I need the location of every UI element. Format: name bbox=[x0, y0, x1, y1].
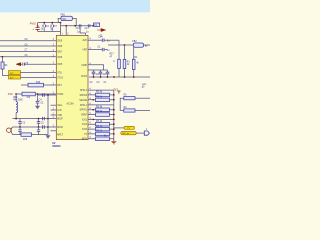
svg-text:IO09: IO09 bbox=[57, 41, 63, 43]
inductor VR1 coil bbox=[16, 102, 17, 113]
svg-text:ACOM: ACOM bbox=[67, 103, 74, 106]
wire R13 bottom bbox=[133, 70, 135, 78]
wire pin 100 bbox=[88, 99, 114, 101]
capacitor C16 bbox=[102, 48, 104, 51]
wire right pin C16 row bbox=[88, 49, 102, 51]
svg-text:SPKL2: SPKL2 bbox=[80, 90, 88, 92]
wire ground return rail bbox=[38, 30, 61, 32]
svg-text:MICN: MICN bbox=[57, 127, 63, 129]
wire R11 top bbox=[118, 40, 120, 59]
top blue banner bbox=[0, 0, 150, 12]
wire C25 leads bbox=[38, 127, 40, 135]
node on PVIO rail 2 bbox=[51, 22, 53, 24]
capacitor C26 bbox=[92, 72, 96, 74]
wire to coil bbox=[15, 94, 17, 102]
svg-text:R16: R16 bbox=[36, 82, 41, 84]
node rail x107.5 bbox=[107, 76, 109, 78]
wire pin 114.5 bbox=[88, 114, 114, 116]
net label TX pill bbox=[124, 126, 135, 129]
resistor R16 bbox=[28, 83, 44, 87]
node bus 100 bbox=[113, 99, 115, 101]
C14 lead bbox=[104, 39, 119, 41]
wire FB1 right lead bbox=[72, 18, 76, 25]
wire left row 2 bbox=[0, 45, 56, 47]
resistor R17 bbox=[1, 62, 4, 69]
wire R13 top bbox=[133, 47, 135, 59]
capacitor C27 bbox=[99, 72, 103, 74]
mic electrode bar bbox=[10, 128, 12, 133]
node bus 129 bbox=[113, 128, 115, 130]
svg-text:SPKR1: SPKR1 bbox=[79, 110, 87, 112]
wire C11 to pin3 bbox=[80, 27, 85, 35]
stub left pin 105 bbox=[51, 104, 57, 106]
net label MIC_data pill bbox=[121, 131, 136, 134]
svg-text:C17: C17 bbox=[85, 28, 90, 30]
ferrite bead FB2 bbox=[133, 43, 143, 47]
svg-text:FB2: FB2 bbox=[132, 41, 137, 43]
resistor R32 bbox=[96, 98, 110, 102]
svg-text:SSD63: SSD63 bbox=[52, 144, 61, 148]
node rail2 b bbox=[38, 126, 40, 128]
wire IC pin2 stub bbox=[65, 26, 67, 36]
svg-text:MPLT: MPLT bbox=[57, 135, 64, 137]
node rail x132.5 bbox=[133, 76, 135, 78]
wire pin 105 bbox=[88, 104, 114, 106]
wire pin 124.2 bbox=[88, 123, 114, 125]
resistor R35 bbox=[96, 123, 110, 127]
wire mic rail 1 bbox=[13, 118, 49, 120]
resistor R34 bbox=[96, 113, 110, 117]
svg-text:IO03: IO03 bbox=[82, 129, 88, 131]
svg-text:IO07: IO07 bbox=[57, 51, 63, 53]
resistor R12 bbox=[123, 59, 126, 68]
svg-text:R19: R19 bbox=[23, 139, 28, 141]
wire R21 right bbox=[135, 97, 150, 99]
wire right pin C14 row bbox=[88, 39, 102, 41]
ferrite bead FB1 bbox=[61, 16, 72, 20]
svg-text:R1?: R1? bbox=[110, 54, 115, 56]
svg-text:IO02: IO02 bbox=[82, 124, 88, 126]
svg-text:VDD: VDD bbox=[57, 115, 62, 117]
resistor R36 bbox=[96, 127, 110, 130]
node bus 134 bbox=[113, 133, 115, 135]
wire pin 110 bbox=[88, 109, 114, 111]
capacitor C13 bbox=[51, 25, 53, 28]
svg-text:R3 4k: R3 4k bbox=[96, 126, 103, 128]
stub left pin 115 bbox=[51, 114, 57, 116]
svg-text:IO08: IO08 bbox=[57, 46, 63, 48]
ground below C20 bbox=[35, 106, 40, 109]
wire R12 top bbox=[124, 45, 126, 59]
ground bus bottom bbox=[45, 135, 50, 139]
resistor R22 bbox=[124, 109, 135, 112]
resistor R21 bbox=[124, 97, 135, 100]
C4 bars bbox=[43, 93, 45, 96]
resistor R11 bbox=[118, 59, 121, 68]
IC U2 body bbox=[56, 35, 88, 139]
svg-text:MIC_da: MIC_da bbox=[122, 133, 130, 135]
svg-text:IO06: IO06 bbox=[57, 57, 63, 59]
wire row 5 bbox=[24, 63, 56, 65]
3V3 symbol bbox=[117, 91, 120, 94]
wire R17 bottom bbox=[2, 69, 8, 75]
sheet entry right bbox=[144, 131, 149, 135]
wire pin 90 bbox=[88, 89, 114, 91]
stub left pin 130 bbox=[51, 130, 57, 132]
wire cap tops bbox=[88, 69, 108, 71]
node on PVIO rail bbox=[43, 22, 45, 24]
node rail x100.5 bbox=[100, 76, 102, 78]
resistor R38 bbox=[96, 137, 110, 141]
node bus 124 bbox=[113, 123, 115, 125]
node bus 119 bbox=[113, 119, 115, 121]
capacitor C22 bbox=[18, 122, 21, 124]
svg-text:PVAD: PVAD bbox=[57, 93, 63, 96]
node pin row a bbox=[92, 99, 94, 101]
wire rail2 to IC bbox=[48, 126, 56, 128]
capacitor C10 polarized bbox=[35, 23, 39, 32]
wire mic rail 2 bbox=[13, 126, 49, 128]
node rail transition bbox=[60, 22, 62, 24]
wire MIC_data right bbox=[136, 132, 144, 134]
wire TX left bbox=[114, 127, 124, 129]
capacitor C20 bbox=[36, 101, 40, 103]
wire C24 leads bbox=[19, 127, 21, 135]
wire left row 1 bbox=[0, 40, 56, 42]
svg-text:IO01: IO01 bbox=[82, 119, 88, 121]
wire PVIO rail bbox=[38, 22, 61, 24]
wire C20 bottom bbox=[37, 103, 39, 106]
microphone MK1 bbox=[7, 128, 11, 132]
node bus 110 bbox=[113, 109, 115, 111]
svg-text:VRF: VRF bbox=[82, 50, 87, 52]
crystal Y1 highlighted bbox=[9, 71, 21, 75]
capacitor C14 bbox=[102, 39, 104, 42]
input arrow bbox=[16, 63, 22, 66]
wire pin 119.4 bbox=[88, 118, 114, 120]
wire C22 leads bbox=[19, 119, 21, 127]
wire left row 4 bbox=[0, 56, 56, 58]
node bus b bbox=[47, 126, 49, 128]
svg-text:XTLI: XTLI bbox=[57, 73, 62, 75]
node bus a bbox=[47, 118, 49, 120]
node rail x114 bbox=[113, 76, 115, 78]
wire Y1 row a bbox=[21, 72, 57, 74]
svg-text:R3 4k: R3 4k bbox=[96, 121, 103, 123]
wire IC pin1 stub bbox=[60, 23, 62, 36]
capacitor C5 bbox=[23, 63, 25, 66]
ground bus right bbox=[111, 139, 116, 144]
wire FB2 rail bbox=[108, 44, 150, 46]
C12 leads bbox=[43, 23, 45, 32]
wire pin 129.1 bbox=[88, 128, 114, 130]
cap bars on rail1 bbox=[43, 117, 45, 120]
wire R21 left down bbox=[120, 98, 124, 110]
wire R22 left bbox=[120, 110, 124, 112]
svg-text:VMID: VMID bbox=[81, 65, 87, 67]
wire P10 row bbox=[16, 93, 56, 95]
wire FB1 left lead bbox=[58, 18, 61, 22]
wire rail1 to IC bbox=[48, 118, 56, 120]
C28 leads bbox=[107, 70, 109, 77]
svg-text:TX: TX bbox=[84, 134, 87, 136]
bus right vertical bbox=[113, 90, 115, 139]
wire pin 138.7 bbox=[88, 138, 114, 140]
wire to R17 bbox=[1, 57, 3, 62]
svg-text:MICP: MICP bbox=[57, 119, 63, 121]
svg-text:SPKL1: SPKL1 bbox=[80, 105, 88, 107]
node rail1 b bbox=[38, 118, 40, 120]
svg-text:RST: RST bbox=[57, 85, 62, 87]
node PVDD b bbox=[74, 25, 76, 27]
svg-text:VAB 1M0: VAB 1M0 bbox=[13, 99, 23, 102]
wire pin row 64.8 bbox=[88, 65, 104, 70]
node P10 bbox=[15, 93, 17, 95]
svg-text:VALL: VALL bbox=[57, 104, 63, 107]
svg-text:SENSE: SENSE bbox=[79, 100, 87, 102]
svg-text:C11: C11 bbox=[76, 28, 81, 30]
svg-text:IO05: IO05 bbox=[57, 64, 63, 66]
wire PVDD rail bbox=[61, 25, 98, 27]
C26 leads bbox=[93, 70, 95, 77]
node rail2 a bbox=[19, 126, 21, 128]
cap bars on rail2 bbox=[43, 125, 45, 128]
node pin row b bbox=[92, 109, 94, 111]
banner lower edge bbox=[0, 12, 150, 14]
svg-text:P10: P10 bbox=[8, 92, 13, 96]
capacitor C23 bbox=[37, 122, 40, 124]
svg-text:C14: C14 bbox=[98, 37, 103, 39]
wire decoupling rail bbox=[89, 76, 150, 78]
capacitor C12 bbox=[43, 25, 45, 28]
capacitor C4 inline bbox=[38, 94, 56, 96]
capacitor C17 bbox=[88, 24, 90, 27]
node FB2 rail bbox=[124, 44, 126, 46]
svg-text:AVSS: AVSS bbox=[81, 75, 87, 78]
node bus 114 bbox=[113, 114, 115, 116]
power port PVDD arrow bbox=[97, 29, 105, 32]
wire pin 133.9 bbox=[88, 133, 114, 135]
node bus 95 bbox=[113, 94, 115, 96]
svg-text:MDN: MDN bbox=[82, 139, 88, 141]
wire coil bottom bbox=[15, 113, 17, 119]
node rail x93.5 bbox=[93, 76, 95, 78]
schematic background bbox=[0, 0, 150, 150]
svg-text:AVD: AVD bbox=[82, 39, 87, 42]
node after R15 bbox=[37, 93, 39, 95]
C27 leads bbox=[100, 70, 102, 77]
wire R22 right bbox=[135, 110, 150, 112]
C13 leads bbox=[51, 23, 53, 32]
svg-text:SPKR2: SPKR2 bbox=[79, 95, 87, 97]
capacitor C25 bbox=[37, 130, 40, 132]
node PVDD c bbox=[92, 25, 94, 27]
svg-text:R3 4k: R3 4k bbox=[96, 106, 103, 108]
wire left row 3 bbox=[0, 50, 56, 52]
resistor R37 bbox=[96, 132, 110, 136]
wire row R16 bbox=[21, 84, 56, 86]
node row4 bbox=[2, 56, 4, 58]
svg-text:R3 4k: R3 4k bbox=[96, 97, 103, 99]
resistor R19 bbox=[21, 133, 32, 136]
resistor R33 bbox=[96, 108, 110, 112]
svg-text:R3 4k: R3 4k bbox=[96, 92, 103, 94]
node pin row c bbox=[92, 119, 94, 121]
vertical bus left of IC bbox=[47, 95, 49, 135]
capacitor C28 bbox=[106, 72, 110, 74]
resistor R13 bbox=[132, 59, 135, 69]
svg-text:GP?: GP? bbox=[142, 84, 147, 86]
wire R12 bottom bbox=[124, 69, 126, 78]
wire C23 leads bbox=[38, 119, 40, 127]
wire R11 bottom bbox=[118, 69, 120, 78]
capacitor C18 box bbox=[94, 23, 100, 26]
capacitor C24 bbox=[18, 130, 21, 132]
node rail x120 bbox=[124, 76, 126, 78]
svg-text:VR1: VR1 bbox=[13, 97, 18, 99]
wire mic rail 3 bbox=[13, 134, 49, 136]
C16 lead bbox=[104, 49, 108, 51]
svg-text:R3 4k: R3 4k bbox=[96, 111, 103, 113]
node PVDD a bbox=[65, 25, 67, 27]
wire pin 95 bbox=[88, 94, 114, 96]
node bus c bbox=[47, 94, 49, 96]
svg-text:VREF: VREF bbox=[81, 115, 88, 117]
node rail1 a bbox=[15, 118, 17, 120]
svg-text:LVD: LVD bbox=[57, 110, 62, 112]
capacitor C11 bbox=[79, 24, 81, 27]
svg-text:XTLO: XTLO bbox=[57, 78, 63, 80]
crystal Y1 lower bbox=[9, 75, 21, 79]
svg-text:PVIO: PVIO bbox=[30, 21, 36, 25]
wire Y1 row b bbox=[21, 77, 57, 79]
resistor R15 bbox=[22, 92, 35, 96]
svg-text:R3 4k: R3 4k bbox=[96, 131, 103, 133]
wire to C20 bbox=[37, 94, 39, 101]
mic leads bbox=[11, 127, 12, 135]
resistor R31 bbox=[96, 93, 110, 97]
stub left pin 110 bbox=[51, 109, 57, 111]
